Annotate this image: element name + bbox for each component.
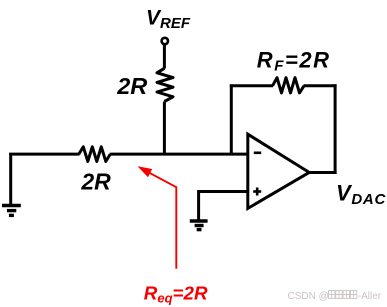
svg-text:2R: 2R: [80, 169, 111, 195]
svg-text:2R: 2R: [116, 73, 147, 99]
ground (left): [2, 153, 21, 216]
svg-text:CSDN @: CSDN @: [288, 291, 329, 302]
svg-text:RF=2R: RF=2R: [257, 47, 331, 74]
watermark: [288, 291, 382, 302]
wire plus input down: [197, 190, 200, 221]
ground (plus input): [190, 221, 208, 230]
wire ground to resistor 2R: [9, 153, 79, 156]
terminal VREF: [162, 38, 168, 44]
resistor RF: [273, 78, 305, 93]
wire resistor to node: [163, 102, 166, 156]
wire feedback left vertical: [230, 84, 233, 154]
wire feedback top left: [230, 84, 273, 87]
wire output: [309, 171, 337, 174]
svg-text:VDAC: VDAC: [336, 181, 386, 208]
annotation arrow (red): [138, 166, 177, 269]
wire VREF terminal to resistor: [163, 45, 166, 69]
svg-text:VREF: VREF: [146, 7, 191, 32]
op-amp U1: [248, 134, 309, 208]
wire feedback top right: [304, 84, 337, 87]
wire feedback right vertical: [334, 84, 337, 174]
resistor 2R (horizontal): [79, 147, 111, 162]
resistor 2R (vertical, VREF branch): [157, 68, 173, 101]
svg-text:-Aller: -Aller: [358, 291, 382, 302]
wire node to op-amp inverting input: [110, 153, 248, 156]
svg-text:Req=2R: Req=2R: [144, 282, 208, 305]
wire plus input: [199, 190, 248, 193]
